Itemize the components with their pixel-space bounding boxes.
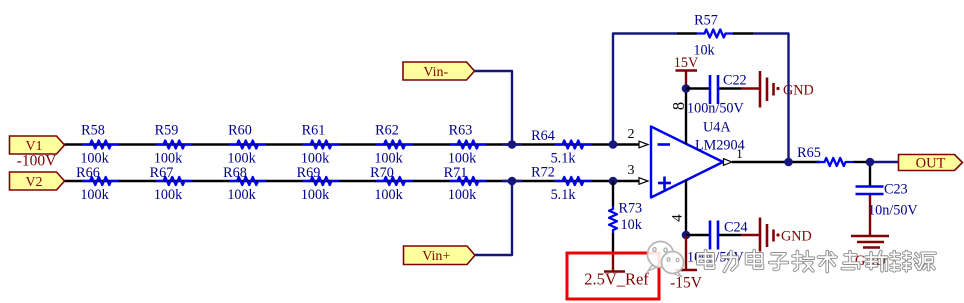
svg-text:C24: C24 <box>724 220 748 236</box>
svg-text:15V: 15V <box>674 55 699 71</box>
svg-text:100k: 100k <box>80 187 109 203</box>
svg-text:R73: R73 <box>619 201 643 217</box>
svg-text:-15V: -15V <box>670 275 703 292</box>
svg-text:R66: R66 <box>76 165 100 181</box>
svg-text:Vin+: Vin+ <box>422 249 450 264</box>
svg-text:2: 2 <box>628 127 635 142</box>
svg-text:100k: 100k <box>154 187 183 203</box>
svg-text:-100V: -100V <box>17 153 57 170</box>
svg-text:100k: 100k <box>227 187 256 203</box>
svg-text:100n/50V: 100n/50V <box>687 101 745 117</box>
svg-text:100k: 100k <box>374 187 403 203</box>
svg-text:R57: R57 <box>694 13 718 29</box>
svg-text:R61: R61 <box>302 123 326 139</box>
svg-text:5.1k: 5.1k <box>551 187 577 203</box>
svg-text:R70: R70 <box>370 165 394 181</box>
svg-text:Vin-: Vin- <box>423 65 448 80</box>
svg-text:R72: R72 <box>531 165 555 181</box>
svg-text:2.5V_Ref: 2.5V_Ref <box>584 270 649 289</box>
svg-text:4: 4 <box>670 214 686 222</box>
svg-text:3: 3 <box>628 163 635 178</box>
svg-text:R63: R63 <box>449 123 473 139</box>
svg-text:R68: R68 <box>223 165 247 181</box>
svg-text:100k: 100k <box>301 187 330 203</box>
svg-text:R64: R64 <box>531 128 555 144</box>
svg-text:R67: R67 <box>150 165 174 181</box>
svg-text:LM2904: LM2904 <box>695 138 745 154</box>
svg-text:GND: GND <box>783 83 814 99</box>
svg-text:R65: R65 <box>797 145 821 161</box>
svg-text:GND: GND <box>781 229 812 245</box>
svg-text:R71: R71 <box>444 165 468 181</box>
svg-text:C22: C22 <box>723 73 747 89</box>
svg-text:OUT: OUT <box>916 155 946 171</box>
svg-text:R58: R58 <box>81 123 105 139</box>
svg-text:100k: 100k <box>448 187 477 203</box>
svg-text:R59: R59 <box>155 123 179 139</box>
svg-text:10n/50V: 10n/50V <box>868 203 918 219</box>
svg-text:U4A: U4A <box>703 120 731 136</box>
svg-text:R69: R69 <box>297 165 321 181</box>
svg-text:R62: R62 <box>375 123 399 139</box>
svg-text:10k: 10k <box>621 217 643 233</box>
svg-text:R60: R60 <box>228 123 252 139</box>
svg-text:C23: C23 <box>884 182 908 198</box>
svg-text:V2: V2 <box>25 175 42 190</box>
